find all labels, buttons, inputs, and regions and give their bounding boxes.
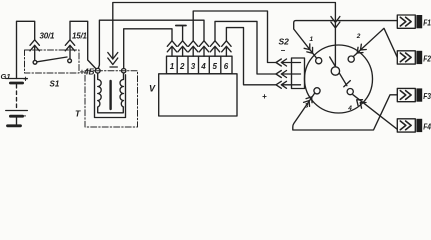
pin labels 1-6	[170, 62, 229, 71]
rotor tick	[344, 81, 351, 87]
module V connector strip	[167, 56, 233, 74]
cap terminal 1	[316, 58, 322, 64]
wire pin2 to chassis	[182, 26, 184, 41]
wire cap3 to F3	[293, 93, 398, 130]
svg-text:−: −	[22, 112, 27, 121]
rotor center	[331, 67, 339, 75]
connector coil HV arrow (down)	[108, 53, 118, 65]
connector pin2 arrow	[178, 41, 187, 56]
coil T body	[95, 75, 126, 118]
svg-text:F2: F2	[423, 53, 431, 63]
svg-text:3: 3	[191, 62, 196, 71]
svg-text:6: 6	[224, 62, 229, 71]
wire +B to pin 4	[98, 20, 204, 68]
wire 15/1 to coil +B terminal	[70, 21, 96, 69]
connector pin6 arrow	[222, 41, 231, 56]
switch S1 contact	[33, 50, 71, 64]
coil secondary winding	[120, 73, 123, 107]
coil HV terminal bar	[110, 66, 117, 68]
svg-text:2: 2	[179, 62, 185, 71]
plug F4	[397, 119, 422, 132]
svg-text:S2: S2	[279, 37, 290, 47]
svg-text:1: 1	[170, 62, 175, 71]
connector pin1 arrow	[167, 41, 176, 56]
svg-text:S1: S1	[50, 80, 60, 89]
node coil K terminal	[122, 69, 126, 73]
chassis bar	[176, 25, 186, 27]
svg-text:4: 4	[200, 62, 206, 71]
connector pin3 arrow	[189, 41, 198, 56]
sensor S2 block	[292, 58, 305, 89]
wire coil HV to distributor	[113, 3, 336, 60]
distributor circle	[305, 45, 373, 113]
connector cap4 arrow	[354, 97, 366, 108]
svg-text:+: +	[262, 92, 267, 101]
module V box	[159, 74, 237, 116]
wire cap4 to F4	[353, 95, 397, 130]
wire pin3 to sensor	[193, 11, 276, 63]
connector pin5 arrow	[210, 41, 219, 56]
wire pin1 to coil K	[124, 29, 172, 69]
coil T dashed box	[85, 71, 138, 127]
connector cap2 arrow	[355, 44, 366, 55]
svg-text:V: V	[149, 84, 156, 94]
coil primary winding	[98, 73, 124, 113]
svg-text:5: 5	[213, 62, 218, 71]
battery G1	[6, 79, 28, 126]
plug F3	[397, 88, 422, 101]
svg-text:+4Б: +4Б	[80, 68, 95, 77]
connector 15/1 arrow	[65, 40, 74, 51]
svg-text:+: +	[23, 75, 28, 84]
rotor arm	[330, 57, 347, 86]
wire battery to 30/1	[17, 21, 35, 78]
plug F1	[397, 15, 422, 28]
svg-text:−: −	[281, 46, 286, 55]
wire cap2 to F2	[353, 28, 397, 57]
node +4B terminal	[95, 68, 100, 73]
wire pin6 to sensor	[226, 28, 276, 85]
cap terminal 4	[347, 89, 353, 95]
connector sensor arrow bottom	[276, 81, 301, 88]
connector cap3 arrow	[304, 95, 315, 106]
connector sensor arrow top	[276, 59, 301, 66]
svg-text:15/1: 15/1	[72, 32, 88, 41]
wire pin5 to sensor	[215, 21, 276, 74]
wire cap1 to F1	[294, 21, 398, 59]
plug F2	[397, 51, 422, 64]
switch S1 dashed box	[25, 50, 80, 73]
svg-text:F1: F1	[423, 18, 431, 28]
svg-text:1: 1	[310, 36, 314, 43]
connector cap1 arrow	[304, 44, 315, 56]
svg-text:F3: F3	[423, 91, 431, 101]
coil core	[109, 81, 111, 109]
cap terminal 3	[314, 88, 320, 94]
connector sensor arrow mid	[276, 71, 301, 78]
connector pin4 arrow	[199, 41, 208, 56]
svg-text:30/1: 30/1	[40, 32, 56, 41]
svg-text:G1: G1	[1, 72, 11, 81]
connector 30/1 arrow	[30, 40, 39, 51]
svg-text:4: 4	[347, 105, 352, 112]
svg-text:F4: F4	[423, 121, 431, 131]
connector distributor HV arrow (down)	[331, 17, 340, 68]
svg-text:T: T	[75, 109, 81, 119]
cap terminal 2	[348, 56, 354, 62]
svg-text:2: 2	[356, 33, 361, 40]
